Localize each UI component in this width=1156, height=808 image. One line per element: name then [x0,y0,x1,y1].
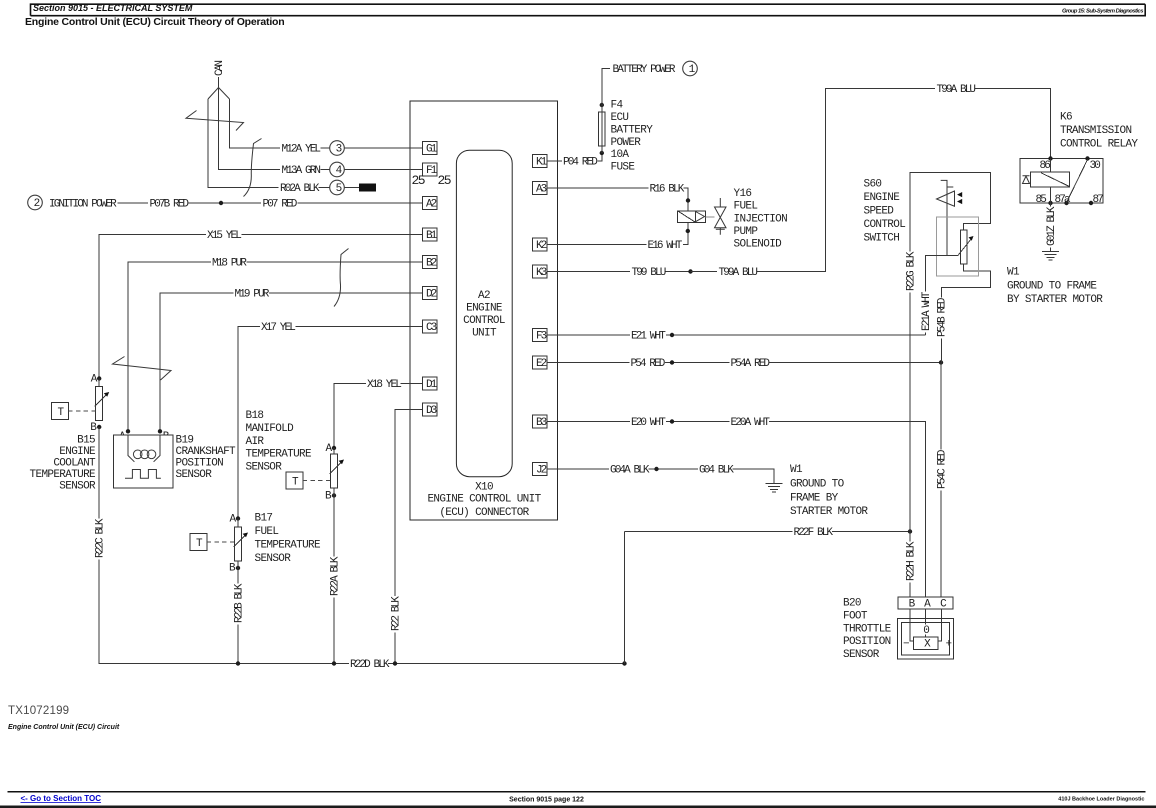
wire E16 WHT to solenoid [683,222,688,244]
splice P54 [670,360,674,364]
svg-text:TEMPERATURE: TEMPERATURE [255,540,322,552]
pin label A of B15 [91,374,98,386]
label R22F BLK [794,527,834,539]
wire R22F BLK right [832,531,910,533]
label P07 RED [263,199,298,211]
node A of B17 [236,516,240,520]
label G04A BLK [610,465,650,477]
svg-text:SWITCH: SWITCH [864,233,900,245]
wire M18 PUR [128,262,211,432]
pin G1 of X10 [422,142,437,156]
connector B20 pins [898,597,953,609]
svg-text:R22C BLK: R22C BLK [95,518,107,558]
wire E21 WHT to S60 [666,334,926,336]
svg-text:<- Go to Section TOC: <- Go to Section TOC [21,794,102,803]
svg-text:BATTERY POWER: BATTERY POWER [613,64,676,76]
node K6 pin 86 [1048,156,1052,160]
label E20A WHT [731,417,771,429]
wire X17 YEL to pin C3 [296,326,423,328]
wire T99A BLU row [691,89,1051,272]
wire M12A YEL to pin G1 [344,147,422,149]
label B18 manifold air temperature sensor [246,410,313,473]
svg-text:M18 PUR: M18 PUR [212,258,247,270]
wire B17 B lead [237,561,239,568]
wire ignition power [118,202,149,204]
svg-text:25: 25 [438,173,451,188]
pin K3 of X10 [532,265,547,279]
wire X15 YEL to pin B1 [242,234,423,236]
sensor B19 square wave [125,470,161,479]
pin label 87 [1093,194,1104,206]
svg-text:BATTERY: BATTERY [611,124,654,136]
wire G04A BLK to splice [649,468,699,470]
label W1 ground to frame by starter motor right [1007,267,1103,307]
wire M13A GRN vertical [219,88,281,170]
svg-text:R22G BLK: R22G BLK [905,251,917,291]
header left text [33,3,193,13]
svg-text:GROUND TO FRAME: GROUND TO FRAME [1007,280,1097,292]
svg-text:J2: J2 [536,465,547,477]
wire S60 wiper E21A WHT [926,256,959,336]
connector 4 [330,162,345,177]
svg-text:CONTROL: CONTROL [463,315,505,327]
svg-text:X17 YEL: X17 YEL [261,322,295,334]
svg-text:SENSOR: SENSOR [176,469,213,481]
wire R22B BLK [237,568,239,664]
svg-text:A2: A2 [478,290,490,302]
label X18 YEL [367,379,401,391]
svg-text:A2: A2 [426,199,437,211]
label T99A BLU top [935,84,975,97]
node K6 pin 87 [1089,201,1093,205]
label P54C RED [936,449,948,490]
label X of B20 [924,639,931,651]
pin E2 of X10 [532,356,547,370]
svg-text:D3: D3 [426,405,437,417]
svg-text:TEMPERATURE: TEMPERATURE [30,469,97,481]
svg-text:T: T [58,407,65,419]
svg-text:86: 86 [1040,160,1051,172]
wire T99 BLU from pin K3 [547,271,630,273]
svg-text:FRAME BY: FRAME BY [790,493,839,505]
wire P54 RED from pin E2 [547,362,630,364]
pin label A of B20 [924,599,931,611]
label R22 BLK [390,596,402,633]
svg-text:25: 25 [412,173,425,188]
wire X18 YEL [334,384,366,448]
svg-text:B2: B2 [426,258,437,270]
wire E20A WHT [769,422,926,598]
svg-text:CAN: CAN [214,61,226,76]
switch S60 actuator [937,180,963,255]
S60 inner frame [937,217,979,276]
connector X10 outline [410,101,558,520]
wire P04 RED from pin K1 [547,160,562,162]
wire M18 PUR to pin B2 [247,261,423,263]
CAN arrow head [208,88,230,100]
wire E16 WHT from pin K2 [547,244,647,246]
page title [25,16,284,28]
svg-text:MANIFOLD: MANIFOLD [246,423,295,435]
svg-text:410J Backhoe Loader Diagnostic: 410J Backhoe Loader Diagnostic [1058,797,1144,803]
wire B20 pin C lead [938,609,942,641]
wire P54A RED [769,362,941,364]
svg-text:P54A RED: P54A RED [731,358,771,370]
wire P54C RED [940,363,942,598]
pin A3 of X10 [532,182,547,196]
label 0 of B20 [922,625,930,638]
pin label 87a [1055,194,1071,206]
wire E21 WHT from pin F3 [547,334,630,336]
label P54 RED [631,358,666,370]
wire G04A BLK from pin J2 [547,468,609,470]
wire G04 BLK to ground [733,469,775,484]
svg-text:STARTER MOTOR: STARTER MOTOR [790,506,868,518]
svg-text:FOOT: FOOT [843,610,868,622]
svg-text:B20: B20 [843,598,861,610]
pin label B of B15 [90,422,97,434]
svg-text:FUEL: FUEL [734,201,758,213]
svg-text:UNIT: UNIT [472,328,497,340]
junction R22D corner [622,661,626,665]
svg-text:(ECU) CONNECTOR: (ECU) CONNECTOR [439,507,529,519]
svg-text:T: T [292,477,299,489]
thermistor B18 [330,454,345,488]
svg-text:T99A BLU: T99A BLU [937,84,976,96]
page bottom edge [0,806,1156,808]
svg-text:R22D BLK: R22D BLK [350,659,390,671]
relay K6 outline [1020,159,1103,204]
wire R16 BLK to solenoid [684,188,689,211]
svg-text:R16 BLK: R16 BLK [650,184,685,196]
svg-text:30: 30 [1090,160,1101,172]
element X of B20 [914,637,939,650]
wire P07 RED to pin A2 [298,202,423,204]
thermistor B17 temperature box T [190,534,235,551]
wire battery power [602,69,610,112]
node Y16 bottom [686,229,690,233]
node B of B17 [236,566,240,570]
svg-text:Engine Control Unit (ECU) Circ: Engine Control Unit (ECU) Circuit Theory… [25,16,284,28]
pin label A of B19 [119,431,126,443]
footer right text [1058,797,1144,803]
page header rule [31,4,1146,16]
label R22A BLK [329,556,341,597]
wire S60 pot bottom [942,264,991,296]
wire B20 pin B lead [910,609,914,641]
pin K1 of X10 [532,155,547,169]
label T99 BLU [632,267,666,279]
node B of B19 [158,429,162,433]
ground W1 frame [765,484,782,492]
label X10 connector caption [427,482,541,520]
node A of B15 [97,376,101,380]
thermistor B17 [234,527,249,561]
svg-text:W1: W1 [790,464,803,476]
label G01Z BLK [1046,206,1058,247]
svg-text:E21 WHT: E21 WHT [631,331,666,343]
pin F3 of X10 [532,329,547,343]
pin B2 of X10 [422,256,437,270]
pin K2 of X10 [532,238,547,252]
svg-text:P54C RED: P54C RED [936,449,948,489]
svg-text:A: A [326,443,333,455]
svg-text:X15 YEL: X15 YEL [207,230,241,242]
svg-text:BY STARTER MOTOR: BY STARTER MOTOR [1007,294,1103,306]
svg-text:IGNITION POWER: IGNITION POWER [49,199,117,211]
svg-text:P04 RED: P04 RED [563,157,598,169]
pin label B of B17 [229,563,236,575]
label B19 crankshaft position sensor [176,435,237,482]
svg-text:SOLENOID: SOLENOID [734,239,783,251]
svg-text:G01Z BLK: G01Z BLK [1046,206,1058,246]
wire R22D BLK left [99,663,349,665]
pin D1 of X10 [422,377,437,391]
node Y16 top [686,198,690,202]
wire S60 left leg R22G BLK [910,173,991,532]
label R22G BLK [905,251,917,292]
wire B18 B lead [333,488,335,496]
label R16 BLK [650,184,685,196]
svg-text:INJECTION: INJECTION [734,213,788,225]
svg-text:E20 WHT: E20 WHT [631,417,666,429]
svg-text:B: B [229,563,236,575]
svg-text:T99 BLU: T99 BLU [632,267,666,279]
svg-text:TEMPERATURE: TEMPERATURE [246,449,313,461]
label wire gauge 25 [412,173,451,188]
label CAN [214,61,226,76]
wire P07B RED [188,202,261,204]
junction R22F R22G [908,529,912,533]
label P07B RED [150,199,190,211]
footer left link [21,794,102,803]
wire R16 BLK from pin A3 [547,187,649,189]
svg-text:P07 RED: P07 RED [263,199,298,211]
label X15 YEL [207,230,241,242]
connector 1 [683,61,698,76]
pin label 85 [1036,194,1047,206]
label P54A RED [731,358,771,370]
pin label C of B20 [940,599,947,611]
svg-text:S60: S60 [864,179,882,191]
svg-text:Group 15: Sub-System Diagnosti: Group 15: Sub-System Diagnostics [1062,9,1144,15]
wire M13A GRN to circle [321,169,330,171]
svg-text:F3: F3 [536,331,547,343]
node B of B18 [332,493,336,497]
svg-text:B17: B17 [255,513,273,525]
fuse F4 [599,105,606,153]
wire K6 86 to coil [1050,159,1052,173]
valve link Y16 [706,216,715,218]
node K6 pin 85 wire [1048,201,1052,205]
svg-text:CONTROL RELAY: CONTROL RELAY [1060,139,1138,151]
node fuse F4 bottom [600,151,604,155]
label T99A BLU row [717,267,757,280]
wire G01Z BLK [1050,203,1052,252]
harness mark right of CAN [244,139,262,197]
node K6 pin 30 [1085,156,1089,160]
node fuse F4 top [600,103,604,107]
splice G04 [654,467,658,471]
figure id TX1072199 [8,705,69,717]
svg-text:B15: B15 [77,435,95,447]
wire M19 PUR to pin D2 [269,292,423,294]
figure caption [8,724,120,731]
svg-text:R22A BLK: R22A BLK [329,556,341,596]
svg-text:POSITION: POSITION [176,458,224,470]
svg-text:R22F BLK: R22F BLK [794,527,834,539]
wire R22A BLK [333,496,335,664]
wire T99 BLU to splice [666,271,691,273]
harness mark top left [186,111,244,131]
label B17 fuel temperature sensor [255,513,322,566]
sensor B19 outline [114,435,174,488]
label F4 ecu battery power fuse [611,100,654,174]
svg-text:X18 YEL: X18 YEL [367,379,401,391]
wire B15 A lead [98,379,100,387]
svg-text:R22 BLK: R22 BLK [390,596,402,631]
sensor B19 coil [128,435,160,462]
wire R22H BLK [909,532,911,598]
svg-text:G04A BLK: G04A BLK [610,465,650,477]
wire R22F BLK [625,531,793,533]
label minus of B20 [903,639,909,651]
svg-text:A: A [91,374,98,386]
svg-text:A3: A3 [536,184,547,196]
label R22C BLK [95,518,107,559]
label S60 engine speed control switch [864,179,906,245]
svg-text:SENSOR: SENSOR [59,481,96,493]
svg-text:P07B RED: P07B RED [150,199,190,211]
label W1 ground to frame by starter motor [790,464,868,518]
label E21 WHT [631,331,666,343]
svg-text:87: 87 [1093,194,1104,206]
sensor B20 outline [898,619,954,660]
junction P54A P54B [939,360,943,364]
label R22H BLK [905,541,917,582]
svg-text:R22H BLK: R22H BLK [905,541,917,581]
label M19 PUR [235,289,270,301]
wire X18 YEL to pin D1 [401,383,423,385]
wire X15 YEL [99,235,206,378]
splice T99 [688,269,692,273]
wire M19 PUR [160,293,234,432]
svg-text:G04 BLK: G04 BLK [699,465,734,477]
label M13A GRN [280,165,320,178]
svg-text:K6: K6 [1060,112,1072,124]
harness mark at pins B2 D2 [334,249,349,307]
wire E20 WHT to splice [666,421,730,423]
label IGNITION POWER [49,199,117,211]
svg-text:CONTROL: CONTROL [864,219,906,231]
pin J2 of X10 [532,463,547,477]
splice E21 [670,333,674,337]
harness mark at B19 wires [113,357,172,381]
wire P04 RED to fuse [598,154,602,162]
svg-text:T: T [196,538,203,550]
solenoid Y16 [678,211,706,223]
svg-text:FUSE: FUSE [611,162,636,174]
svg-text:SPEED: SPEED [864,206,895,218]
junction R22 to R22D [393,661,397,665]
svg-text:POSITION: POSITION [843,636,891,648]
svg-text:TRANSMISSION: TRANSMISSION [1060,125,1131,137]
svg-text:ENGINE: ENGINE [59,446,96,458]
svg-text:R22B BLK: R22B BLK [233,583,245,623]
svg-text:A: A [230,514,237,526]
wire M12A YEL vertical [230,99,281,148]
label E20 WHT [631,417,666,429]
svg-text:W1: W1 [1007,267,1020,279]
node B of B15 [97,425,101,429]
svg-text:ENGINE: ENGINE [466,303,503,315]
svg-text:Y16: Y16 [734,188,752,200]
label E16 WHT [648,240,683,252]
splice P07 [219,201,223,205]
svg-text:E2: E2 [536,358,547,370]
svg-text:C3: C3 [426,322,437,334]
wire R02A BLK to circle [319,187,330,189]
junction R22B to R22D [236,661,240,665]
pin label B of B18 [325,491,332,503]
label Y16 fuel injection pump solenoid [734,188,788,250]
label R02A BLK [279,183,320,196]
label M18 PUR [212,258,247,270]
pin B3 of X10 [532,415,547,429]
splice E20 [670,419,674,423]
label A2 engine control unit [463,290,505,340]
ground K6 G01Z [1042,252,1059,260]
node K6 pin 87a [1064,201,1068,205]
label P54B RED [937,297,949,338]
svg-text:SENSOR: SENSOR [255,553,292,565]
svg-text:M13A GRN: M13A GRN [282,165,321,177]
label R22D BLK [350,659,390,671]
svg-text:AIR: AIR [246,436,265,448]
label K6 transmission control relay [1060,112,1138,151]
svg-text:GROUND TO: GROUND TO [790,479,845,491]
connector 3 [330,141,345,156]
svg-text:ECU: ECU [611,112,629,124]
pin B1 of X10 [422,228,437,242]
label plus of B20 [946,639,952,651]
svg-text:ENGINE: ENGINE [864,192,901,204]
pin C3 of X10 [422,320,437,334]
wire X17 YEL [238,327,260,519]
wire B18 A lead [333,448,335,454]
svg-text:TX1072199: TX1072199 [8,705,69,717]
wire P54B RED [941,296,943,363]
label R22B BLK [233,583,245,624]
footer center text [509,797,584,804]
label M12A YEL [280,143,320,156]
svg-text:85: 85 [1036,194,1047,206]
connector 2 [28,195,43,210]
svg-text:E21A WHT: E21A WHT [921,291,933,331]
pin label 86 [1040,160,1051,172]
svg-text:R02A BLK: R02A BLK [280,183,320,195]
wire M12A YEL to circle [321,147,330,149]
wire P54 RED to splice [665,362,730,364]
wire K6 coil to 85 [1050,187,1052,210]
svg-text:FUEL: FUEL [255,526,279,538]
svg-text:P54B RED: P54B RED [937,297,949,337]
label X17 YEL [261,322,295,334]
pin label A of B18 [326,443,333,455]
relay K6 coil [1031,172,1070,187]
pin label B of B19 [163,431,170,443]
label B20 foot throttle position sensor [843,598,892,662]
